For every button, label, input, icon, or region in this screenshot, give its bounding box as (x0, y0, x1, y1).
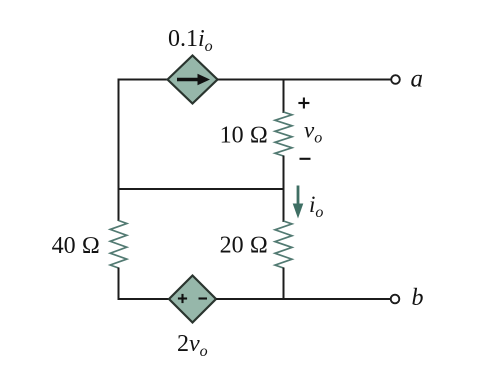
resistor R 40ohm (110, 221, 127, 269)
resistor R 20ohm (275, 221, 292, 268)
svg-text:a: a (411, 66, 424, 93)
svg-text:2vo: 2vo (177, 331, 208, 360)
resistor R 10ohm (275, 112, 292, 156)
svg-text:b: b (412, 285, 424, 311)
wire: top rail left segment (119, 79, 170, 81)
wire: bottom rail left segment (119, 298, 171, 300)
svg-text:10 Ω: 10 Ω (220, 123, 268, 149)
wire: left rail upper (118, 79, 120, 222)
wire: mid rail top stub (283, 79, 285, 114)
svg-text:40 Ω: 40 Ω (52, 233, 100, 259)
label - of vo (300, 158, 311, 160)
wire: middle horizontal (118, 188, 285, 190)
label + of vo (298, 98, 309, 109)
current source U1 0.1io (dependent diamond source) (168, 56, 218, 104)
voltage source U2 2vo (dependent diamond source) (169, 276, 216, 323)
wire: mid rail bottom stub (283, 268, 285, 301)
terminal b (open circle) (391, 295, 400, 304)
wire: top rail right segment (218, 79, 392, 81)
svg-text:vo: vo (304, 118, 322, 147)
current arrow io (teal) (293, 186, 304, 219)
svg-text:20 Ω: 20 Ω (220, 233, 268, 259)
wire: bottom rail right segment (216, 298, 391, 300)
terminal a (open circle) (391, 75, 400, 84)
svg-text:io: io (309, 192, 323, 221)
wire: left rail lower (118, 268, 120, 301)
wire: mid rail between resistors (283, 156, 285, 223)
svg-text:0.1io: 0.1io (168, 26, 213, 55)
